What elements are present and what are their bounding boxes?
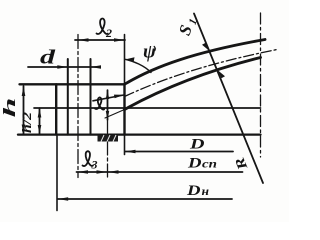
label psi prime tick [153, 47, 156, 51]
leader line of l1 to hub face [93, 95, 124, 101]
arrowhead h top [22, 86, 26, 96]
dimension diagonal S1 and R radius line [194, 14, 263, 184]
arrowhead Dn left [58, 197, 68, 201]
arrowhead l1 bottom [106, 111, 109, 120]
node hub face extension below (for D) [124, 135, 126, 155]
arrowhead Dsp left [108, 170, 119, 174]
label S1 rotated [175, 14, 200, 38]
arrowhead leader l1 at hub face [114, 95, 124, 99]
dimension line Dn [58, 198, 233, 200]
dimension line h/2 [39, 108, 41, 134]
node hub left edge [55, 84, 57, 134]
node bore centerline (dash-dot vertical) [77, 35, 79, 178]
dimension line l2 [75, 39, 125, 41]
arrowhead l3 left [78, 170, 89, 174]
node hub bottom edge extended across (wire) [18, 133, 261, 135]
svg-text:D: D [187, 156, 202, 172]
arrowhead l1 top [106, 90, 109, 99]
arrowhead d right [91, 65, 102, 69]
node bore right wall (extension up for d) [90, 59, 92, 135]
arrowhead S1 lower (points up-left onto lower wall) [218, 70, 226, 78]
node blade axis dash-dot through gland [107, 120, 109, 178]
svg-text:2: 2 [105, 26, 112, 40]
svg-text:н: н [202, 184, 210, 198]
arrowhead l2 right [114, 38, 125, 42]
arrowhead d left [57, 65, 68, 69]
arrowhead psi at vertical [125, 57, 135, 61]
label R rotated [232, 155, 251, 173]
svg-text:d: d [40, 47, 57, 69]
label h rotated [0, 98, 19, 118]
label l3 script ell with subscript 3 [83, 151, 94, 166]
node hub face extension above (for psi and l2) [124, 35, 126, 85]
label l2 script ell with subscript 2 [97, 19, 108, 34]
node hub top edge with h extension (wire) [20, 83, 125, 85]
node hub right edge [123, 84, 125, 134]
svg-text:D: D [186, 183, 201, 199]
dimension line d [28, 66, 100, 68]
arrowhead S1 upper (points down-right onto upper wall) [202, 43, 210, 51]
gland packing hatch block [98, 135, 119, 142]
arrowhead l2 left [78, 38, 89, 42]
svg-text:ψ: ψ [143, 42, 156, 63]
svg-text:R: R [232, 155, 251, 173]
label h/2 rotated [20, 112, 34, 133]
arrowhead D left [125, 150, 136, 154]
node branch axis vertical centerline right [260, 13, 262, 157]
svg-text:h/2: h/2 [20, 112, 34, 133]
blade centerline (dash-dot curve) [125, 50, 278, 97]
node bore left wall (extension up for d) [67, 59, 69, 135]
svg-text:3: 3 [91, 158, 98, 172]
arrowhead l3 right [97, 170, 108, 174]
svg-text:h: h [0, 98, 19, 118]
angle arc psi [125, 59, 151, 72]
blade upper wall curve [125, 40, 266, 85]
svg-text:1: 1 [187, 17, 200, 26]
svg-text:D: D [189, 137, 205, 153]
dimension line D [125, 151, 233, 153]
dimension line l3 and Dsp shared [77, 171, 243, 173]
node left hub edge extension below (for Dn) [56, 136, 58, 211]
arrowhead h bottom [22, 125, 26, 135]
label l1 script ell [95, 97, 104, 109]
blade lower wall curve [125, 58, 261, 110]
arrowhead h/2 bottom [38, 125, 42, 135]
arrowhead h/2 top [38, 108, 42, 118]
svg-text:сп: сп [202, 159, 217, 171]
node platform mid line h/2 level (wire) [34, 107, 261, 109]
blade lower wall extension into hub [105, 110, 125, 119]
dimension line l1 vertical [107, 90, 109, 120]
dimension line h [23, 86, 25, 134]
